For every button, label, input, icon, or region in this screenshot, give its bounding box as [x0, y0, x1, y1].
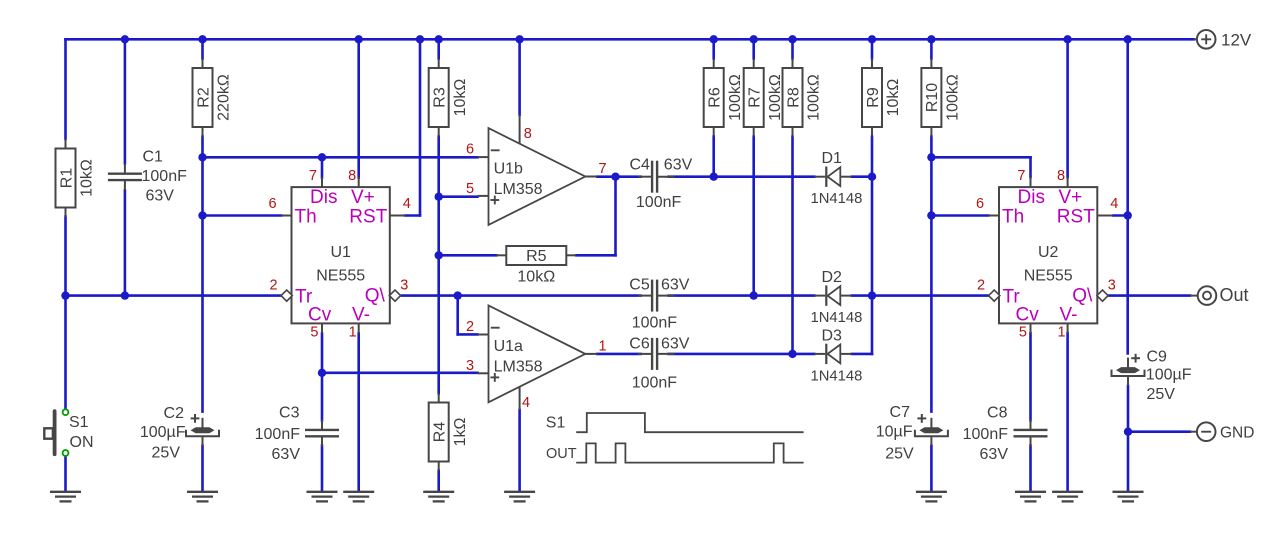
svg-text:V+: V+: [1059, 187, 1083, 208]
junction R1/bus: [61, 291, 69, 299]
ground C3: [307, 492, 338, 502]
junction RST/C9: [1124, 211, 1132, 219]
svg-text:12V: 12V: [1221, 31, 1252, 50]
junction divider/R5: [435, 251, 443, 259]
svg-text:25V: 25V: [885, 446, 914, 463]
wire U1 Cv to C3: [321, 333, 324, 420]
svg-text:10kΩ: 10kΩ: [452, 79, 469, 117]
wire rail to R3: [437, 39, 440, 58]
svg-text:RST: RST: [349, 206, 387, 227]
wire to U1a pin2: [458, 333, 478, 336]
junction rail/C1: [121, 35, 129, 43]
svg-text:OUT: OUT: [546, 446, 577, 462]
svg-text:1: 1: [598, 338, 606, 354]
svg-text:6: 6: [268, 196, 276, 212]
IC U1 NE555 body: [268, 168, 410, 341]
svg-text:V-: V-: [352, 304, 370, 325]
wire D1 to R9 node: [852, 175, 872, 178]
junction U1b out/R5: [611, 173, 619, 181]
wire C8 to ground: [1029, 446, 1032, 491]
wire rail to U1b V+ pin8: [518, 39, 521, 115]
wire R2/C2 node vertical: [201, 137, 204, 412]
resistor R8: [783, 59, 823, 137]
svg-text:C5: C5: [629, 277, 650, 294]
svg-text:100kΩ: 100kΩ: [727, 74, 744, 121]
junction C1/bus: [121, 291, 129, 299]
capacitor C7 10uF electrolytic: [915, 414, 948, 446]
svg-text:U1b: U1b: [494, 161, 523, 178]
junction bus/U1a pin2: [454, 291, 462, 299]
svg-text:Dis: Dis: [1018, 187, 1045, 208]
svg-text:R7: R7: [747, 87, 764, 108]
wire U2 Cv to C8: [1029, 333, 1032, 421]
wire to GND terminal: [1128, 430, 1190, 433]
svg-text:D2: D2: [822, 269, 843, 286]
svg-text:100kΩ: 100kΩ: [945, 74, 962, 121]
ground C2: [187, 492, 218, 502]
svg-text:R5: R5: [526, 248, 547, 265]
svg-text:100µF: 100µF: [1146, 367, 1192, 384]
svg-text:C8: C8: [987, 405, 1008, 422]
wire rail to RST node / C9: [1126, 39, 1129, 353]
ground U1a pin4: [504, 492, 535, 502]
svg-text:8: 8: [1057, 168, 1065, 184]
svg-text:63V: 63V: [980, 446, 1009, 463]
wire to U2 Dis pin7: [1029, 157, 1032, 177]
ground U2 V-: [1052, 492, 1083, 502]
wire R10/C7 node vertical: [930, 137, 933, 412]
capacitor C9 100uF electrolytic: [1112, 354, 1145, 386]
svg-text:U1a: U1a: [494, 338, 523, 355]
wire R8 to C6/D3 node: [791, 137, 794, 354]
wire U1a out to C6: [597, 353, 640, 356]
junction rail/R6: [710, 35, 718, 43]
wire rail to R2: [201, 39, 204, 58]
wire C1 to bus: [124, 190, 127, 295]
wire rail to C1: [124, 39, 127, 163]
resistor R9: [862, 59, 902, 137]
svg-text:100nF: 100nF: [632, 315, 678, 332]
junction rail/R9: [868, 35, 876, 43]
wire rail to R10: [930, 39, 933, 58]
junction diode node/U2 Tr: [868, 291, 876, 299]
capacitor C5 100nF: [638, 280, 675, 312]
junction node A Dis: [198, 153, 206, 161]
wire R10 node to U2 Dis riser: [931, 156, 1030, 159]
wire R9 / diode node vertical: [871, 137, 874, 354]
svg-text:4: 4: [1110, 196, 1118, 212]
wire R6 to C4/D1 node: [712, 137, 715, 177]
wire rail to U1 V+ pin8: [357, 39, 360, 177]
svg-text:100kΩ: 100kΩ: [806, 74, 823, 121]
wire D2 node to U2 Tr pin2: [852, 294, 989, 297]
svg-text:Cv: Cv: [308, 304, 332, 325]
wire R1 to S1 / bus: [64, 217, 67, 410]
svg-text:100kΩ: 100kΩ: [767, 74, 784, 121]
junction Cv/C3/U1a pin3: [318, 369, 326, 377]
junction node A Th: [198, 211, 206, 219]
svg-text:100nF: 100nF: [142, 168, 188, 185]
ground R4: [423, 492, 454, 502]
svg-text:1kΩ: 1kΩ: [452, 418, 469, 447]
wire R3-R4 divider node: [437, 137, 440, 394]
svg-text:10kΩ: 10kΩ: [517, 269, 555, 286]
svg-text:V-: V-: [1060, 304, 1078, 325]
svg-text:8: 8: [524, 126, 532, 142]
wire U1b out to C4: [597, 175, 640, 178]
junction rail/RST: [416, 35, 424, 43]
wire R5 to U1b output: [614, 177, 617, 256]
svg-text:NE555: NE555: [316, 268, 365, 285]
svg-text:LM358: LM358: [494, 181, 543, 198]
wire S1 to ground: [64, 456, 67, 491]
svg-text:100µF: 100µF: [140, 424, 186, 441]
resistor R5: [496, 246, 576, 286]
svg-text:7: 7: [309, 168, 317, 184]
svg-text:25V: 25V: [1147, 386, 1176, 403]
wire Th node to U1b pin6: [203, 156, 478, 159]
svg-text:Th: Th: [1002, 206, 1024, 227]
wire bus drop to U1a pin2: [456, 296, 459, 335]
wire rail to R8: [791, 39, 794, 58]
svg-text:63V: 63V: [272, 446, 301, 463]
diode D1 1N4148: [811, 150, 863, 207]
svg-text:7: 7: [1017, 168, 1025, 184]
svg-text:GND: GND: [1220, 425, 1254, 442]
svg-text:100nF: 100nF: [632, 375, 678, 392]
svg-text:5: 5: [466, 181, 474, 197]
svg-text:3: 3: [1108, 277, 1116, 293]
svg-text:C9: C9: [1147, 349, 1168, 366]
capacitor C2 100uF electrolytic: [186, 414, 219, 446]
svg-text:V+: V+: [351, 187, 375, 208]
resistor R6: [704, 59, 744, 137]
svg-text:R6: R6: [707, 87, 724, 108]
wire C7 to ground: [930, 446, 933, 491]
svg-text:7: 7: [598, 161, 606, 177]
wire C3 to ground: [321, 446, 324, 491]
svg-text:63V: 63V: [661, 336, 690, 353]
svg-text:100nF: 100nF: [636, 194, 682, 211]
wire U2 V- pin1 to ground: [1066, 333, 1069, 491]
capacitor C1 100nF: [108, 164, 142, 191]
junction R10/U2 Th: [927, 211, 935, 219]
svg-text:63V: 63V: [661, 277, 690, 294]
svg-text:25V: 25V: [152, 445, 181, 462]
capacitor C6 100nF: [638, 338, 675, 370]
svg-text:5: 5: [310, 325, 318, 341]
svg-text:6: 6: [466, 142, 474, 158]
svg-text:ON: ON: [70, 434, 94, 451]
capacitor C4 100nF: [638, 161, 675, 193]
svg-text:Th: Th: [295, 206, 317, 227]
svg-text:LM358: LM358: [494, 358, 543, 375]
wire U1 Q pin3 to C5: [401, 294, 641, 297]
svg-text:1N4148: 1N4148: [811, 368, 863, 384]
svg-text:S1: S1: [69, 414, 89, 431]
wire rail to R1: [64, 39, 67, 139]
timing diagram OUT trace: [546, 443, 804, 462]
svg-text:220kΩ: 220kΩ: [216, 74, 233, 121]
svg-text:63V: 63V: [664, 157, 693, 174]
wire rail to R7: [752, 39, 755, 58]
svg-text:U1: U1: [330, 244, 351, 261]
junction rail/R8: [788, 35, 796, 43]
wire R7 to C5/D2 node: [752, 137, 755, 296]
svg-text:5: 5: [1019, 325, 1027, 341]
svg-text:63V: 63V: [146, 188, 175, 205]
wire rail to R9: [871, 39, 874, 58]
wire to U2 RST pin4: [1113, 214, 1127, 217]
svg-text:C2: C2: [164, 405, 185, 422]
wire U1a V- pin4 to ground: [518, 410, 521, 491]
ground U1 V-: [343, 492, 374, 502]
svg-text:6: 6: [976, 196, 984, 212]
diode D3 1N4148: [811, 327, 863, 384]
svg-text:C4: C4: [630, 157, 651, 174]
svg-text:10µF: 10µF: [876, 424, 913, 441]
svg-text:10kΩ: 10kΩ: [79, 159, 96, 197]
svg-text:D3: D3: [822, 327, 843, 344]
svg-text:3: 3: [400, 277, 408, 293]
svg-text:10kΩ: 10kΩ: [885, 79, 902, 117]
svg-text:100nF: 100nF: [963, 426, 1009, 443]
ground C9/GND: [1113, 492, 1144, 502]
junction rail/R10: [927, 35, 935, 43]
junction rail/R3: [435, 35, 443, 43]
resistor R4: [429, 393, 469, 471]
ground S1: [50, 492, 81, 502]
junction rail/U1 V+: [355, 35, 363, 43]
+12V supply terminal: [1194, 30, 1252, 50]
resistor R1: [56, 139, 96, 217]
diode D2 1N4148: [811, 269, 863, 326]
svg-text:1N4148: 1N4148: [811, 310, 863, 326]
svg-text:Out: Out: [1220, 285, 1249, 305]
wire C5 to D2: [669, 294, 815, 297]
wire rail to R6: [712, 39, 715, 58]
svg-text:4: 4: [522, 395, 530, 411]
svg-text:C3: C3: [279, 405, 300, 422]
wire node to U1 Dis pin7: [321, 157, 324, 177]
resistor R7: [744, 59, 784, 137]
wire C6 to D3: [669, 353, 815, 356]
op-amp U1a LM358: [466, 306, 607, 412]
ground C7: [916, 492, 947, 502]
svg-text:Cv: Cv: [1016, 304, 1040, 325]
svg-text:R3: R3: [432, 87, 449, 108]
svg-text:100nF: 100nF: [255, 426, 301, 443]
wire D3 to node: [852, 353, 872, 356]
wire rail down to RST: [419, 39, 422, 215]
svg-text:NE555: NE555: [1024, 268, 1073, 285]
junction C4/R6/D1: [710, 173, 718, 181]
resistor R10: [921, 59, 961, 137]
junction C5/R7/D2: [750, 291, 758, 299]
svg-text:S1: S1: [546, 415, 566, 432]
capacitor C3 100nF: [305, 420, 339, 447]
wire rail to U2 V+ pin8: [1066, 39, 1069, 177]
Out terminal: [1190, 285, 1249, 305]
wire +12V top rail: [66, 38, 1195, 41]
junction rail/U2 V+: [1063, 35, 1071, 43]
capacitor C8 100nF: [1014, 420, 1048, 447]
wire U2 Q pin3 to Out: [1109, 294, 1190, 297]
wire node to U1b pin5: [439, 195, 478, 198]
wire R5 right: [576, 254, 615, 257]
junction rail/U1b V+: [515, 35, 523, 43]
junction divider/U1b pin5: [435, 193, 443, 201]
resistor R2: [193, 59, 233, 137]
ground C8: [1015, 492, 1046, 502]
junction C6/R8/D3: [788, 350, 796, 358]
GND terminal: [1190, 422, 1254, 441]
junction Dis riser: [318, 153, 326, 161]
wire Cv node to U1a pin3: [322, 371, 478, 374]
svg-text:R10: R10: [924, 83, 941, 112]
svg-text:3: 3: [466, 358, 474, 374]
svg-text:1: 1: [349, 325, 357, 341]
wire node to U2 Th pin6: [931, 214, 988, 217]
wire to U1 RST pin4: [405, 214, 420, 217]
svg-text:C1: C1: [143, 149, 164, 166]
timing diagram S1 trace: [546, 413, 804, 432]
wire bus to U1 Tr pin2: [66, 294, 281, 297]
svg-text:R4: R4: [432, 422, 449, 443]
junction C9/GND: [1124, 428, 1132, 436]
wire U1 V- pin1 to ground: [357, 333, 360, 491]
svg-text:C6: C6: [629, 336, 650, 353]
svg-text:Dis: Dis: [310, 187, 337, 208]
junction R10/U2 Dis: [927, 153, 935, 161]
svg-text:RST: RST: [1057, 206, 1095, 227]
svg-text:2: 2: [977, 277, 985, 293]
svg-text:2: 2: [269, 277, 277, 293]
junction D1/R9: [868, 173, 876, 181]
resistor R3: [429, 59, 469, 137]
svg-text:D1: D1: [822, 150, 843, 167]
svg-text:R8: R8: [785, 87, 802, 108]
wire node to U1 Th pin6: [203, 214, 282, 217]
op-amp U1b LM358: [466, 115, 607, 225]
junction rail/R2: [198, 35, 206, 43]
svg-text:1: 1: [1058, 325, 1066, 341]
IC U2 NE555 body: [976, 168, 1118, 341]
junction rail/U2 RST: [1124, 35, 1132, 43]
wire C9 to GND node: [1127, 386, 1130, 491]
switch S1 pushbutton: [44, 409, 93, 456]
junction rail/R7: [750, 35, 758, 43]
wire C4 to D1: [669, 175, 815, 178]
svg-text:U2: U2: [1038, 244, 1059, 261]
svg-text:1N4148: 1N4148: [811, 191, 863, 207]
svg-text:R1: R1: [58, 168, 75, 189]
wire C2 to ground: [201, 446, 204, 491]
wire node to R5 left: [439, 254, 497, 257]
svg-text:C7: C7: [890, 404, 911, 421]
svg-text:4: 4: [403, 196, 411, 212]
wire R4 to ground: [437, 471, 440, 491]
svg-text:R2: R2: [195, 87, 212, 108]
svg-text:8: 8: [348, 168, 356, 184]
svg-text:2: 2: [466, 319, 474, 335]
svg-text:R9: R9: [865, 87, 882, 108]
